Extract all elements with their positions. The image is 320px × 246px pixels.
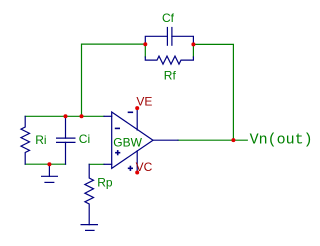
svg-text:Cf: Cf	[162, 11, 175, 25]
svg-text:Vn(out): Vn(out)	[250, 132, 313, 149]
svg-text:Rf: Rf	[164, 69, 177, 83]
svg-text:Ri: Ri	[35, 133, 46, 147]
svg-text:Rp: Rp	[97, 176, 113, 190]
svg-text:VC: VC	[136, 160, 153, 174]
svg-text:Ci: Ci	[79, 132, 90, 146]
svg-text:VE: VE	[136, 94, 152, 108]
svg-text:GBW: GBW	[113, 135, 142, 149]
